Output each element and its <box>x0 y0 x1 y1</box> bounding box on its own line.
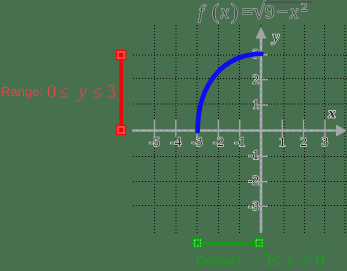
y axis number labels <box>248 46 259 213</box>
red square bottom <box>116 125 126 135</box>
y axis arrowhead <box>256 27 267 39</box>
svg-text:-5: -5 <box>149 134 160 149</box>
svg-text:-1: -1 <box>248 147 259 162</box>
svg-text:(: ( <box>212 0 219 24</box>
svg-text:1: 1 <box>253 97 260 112</box>
svg-text:2: 2 <box>253 71 260 86</box>
svg-text:x: x <box>289 2 299 23</box>
x axis number labels <box>149 134 328 149</box>
svg-text:-4: -4 <box>170 134 181 149</box>
svg-text:≤: ≤ <box>93 83 103 103</box>
svg-text:3: 3 <box>322 134 329 149</box>
svg-text:Range:: Range: <box>1 84 43 99</box>
svg-text:x: x <box>286 250 295 270</box>
svg-text:≤: ≤ <box>59 83 69 103</box>
svg-text:-1: -1 <box>234 134 245 149</box>
svg-text:y: y <box>77 83 88 103</box>
axis dash overlay x <box>136 130 334 132</box>
svg-text:): ) <box>231 0 238 24</box>
axis ticks: horizontal gray ticks on y axis <box>254 55 268 206</box>
radical overbar <box>264 1 313 3</box>
svg-text:≤: ≤ <box>301 250 311 270</box>
svg-text:−: − <box>277 2 288 23</box>
svg-text:3: 3 <box>107 83 116 103</box>
x axis <box>132 129 338 131</box>
svg-text:=: = <box>242 2 253 23</box>
x axis arrowhead <box>336 125 347 137</box>
green square left <box>192 238 202 248</box>
svg-text:−3: −3 <box>252 250 271 270</box>
svg-text:0: 0 <box>316 250 325 270</box>
grid vertical dotted lines <box>155 25 345 234</box>
svg-text:0: 0 <box>47 83 56 103</box>
axis ticks: vertical gray ticks on x axis <box>155 120 325 138</box>
grid horizontal dotted lines <box>133 55 347 206</box>
red range bar <box>119 55 123 130</box>
svg-text:≤: ≤ <box>271 250 281 270</box>
svg-text:x: x <box>328 107 336 122</box>
green domain bar <box>200 242 255 245</box>
red square top <box>116 50 126 60</box>
svg-text:-2: -2 <box>213 134 224 149</box>
svg-text:9: 9 <box>265 2 275 23</box>
svg-text:-2: -2 <box>248 172 259 187</box>
blue curve: quarter circle f(x)=sqrt(9-x^2) <box>198 54 262 131</box>
svg-text:y: y <box>271 30 280 46</box>
svg-text:2: 2 <box>300 134 307 149</box>
green square right <box>254 238 264 248</box>
title formula f(x) = sqrt(9 - x^2) <box>199 0 308 24</box>
axis dash overlay y <box>260 40 262 231</box>
svg-text:-3: -3 <box>248 198 259 213</box>
svg-text:1: 1 <box>279 134 286 149</box>
svg-text:-3: -3 <box>192 134 203 149</box>
y axis <box>260 36 263 233</box>
svg-text:x: x <box>220 2 230 23</box>
svg-text:Domain:: Domain: <box>196 253 244 268</box>
